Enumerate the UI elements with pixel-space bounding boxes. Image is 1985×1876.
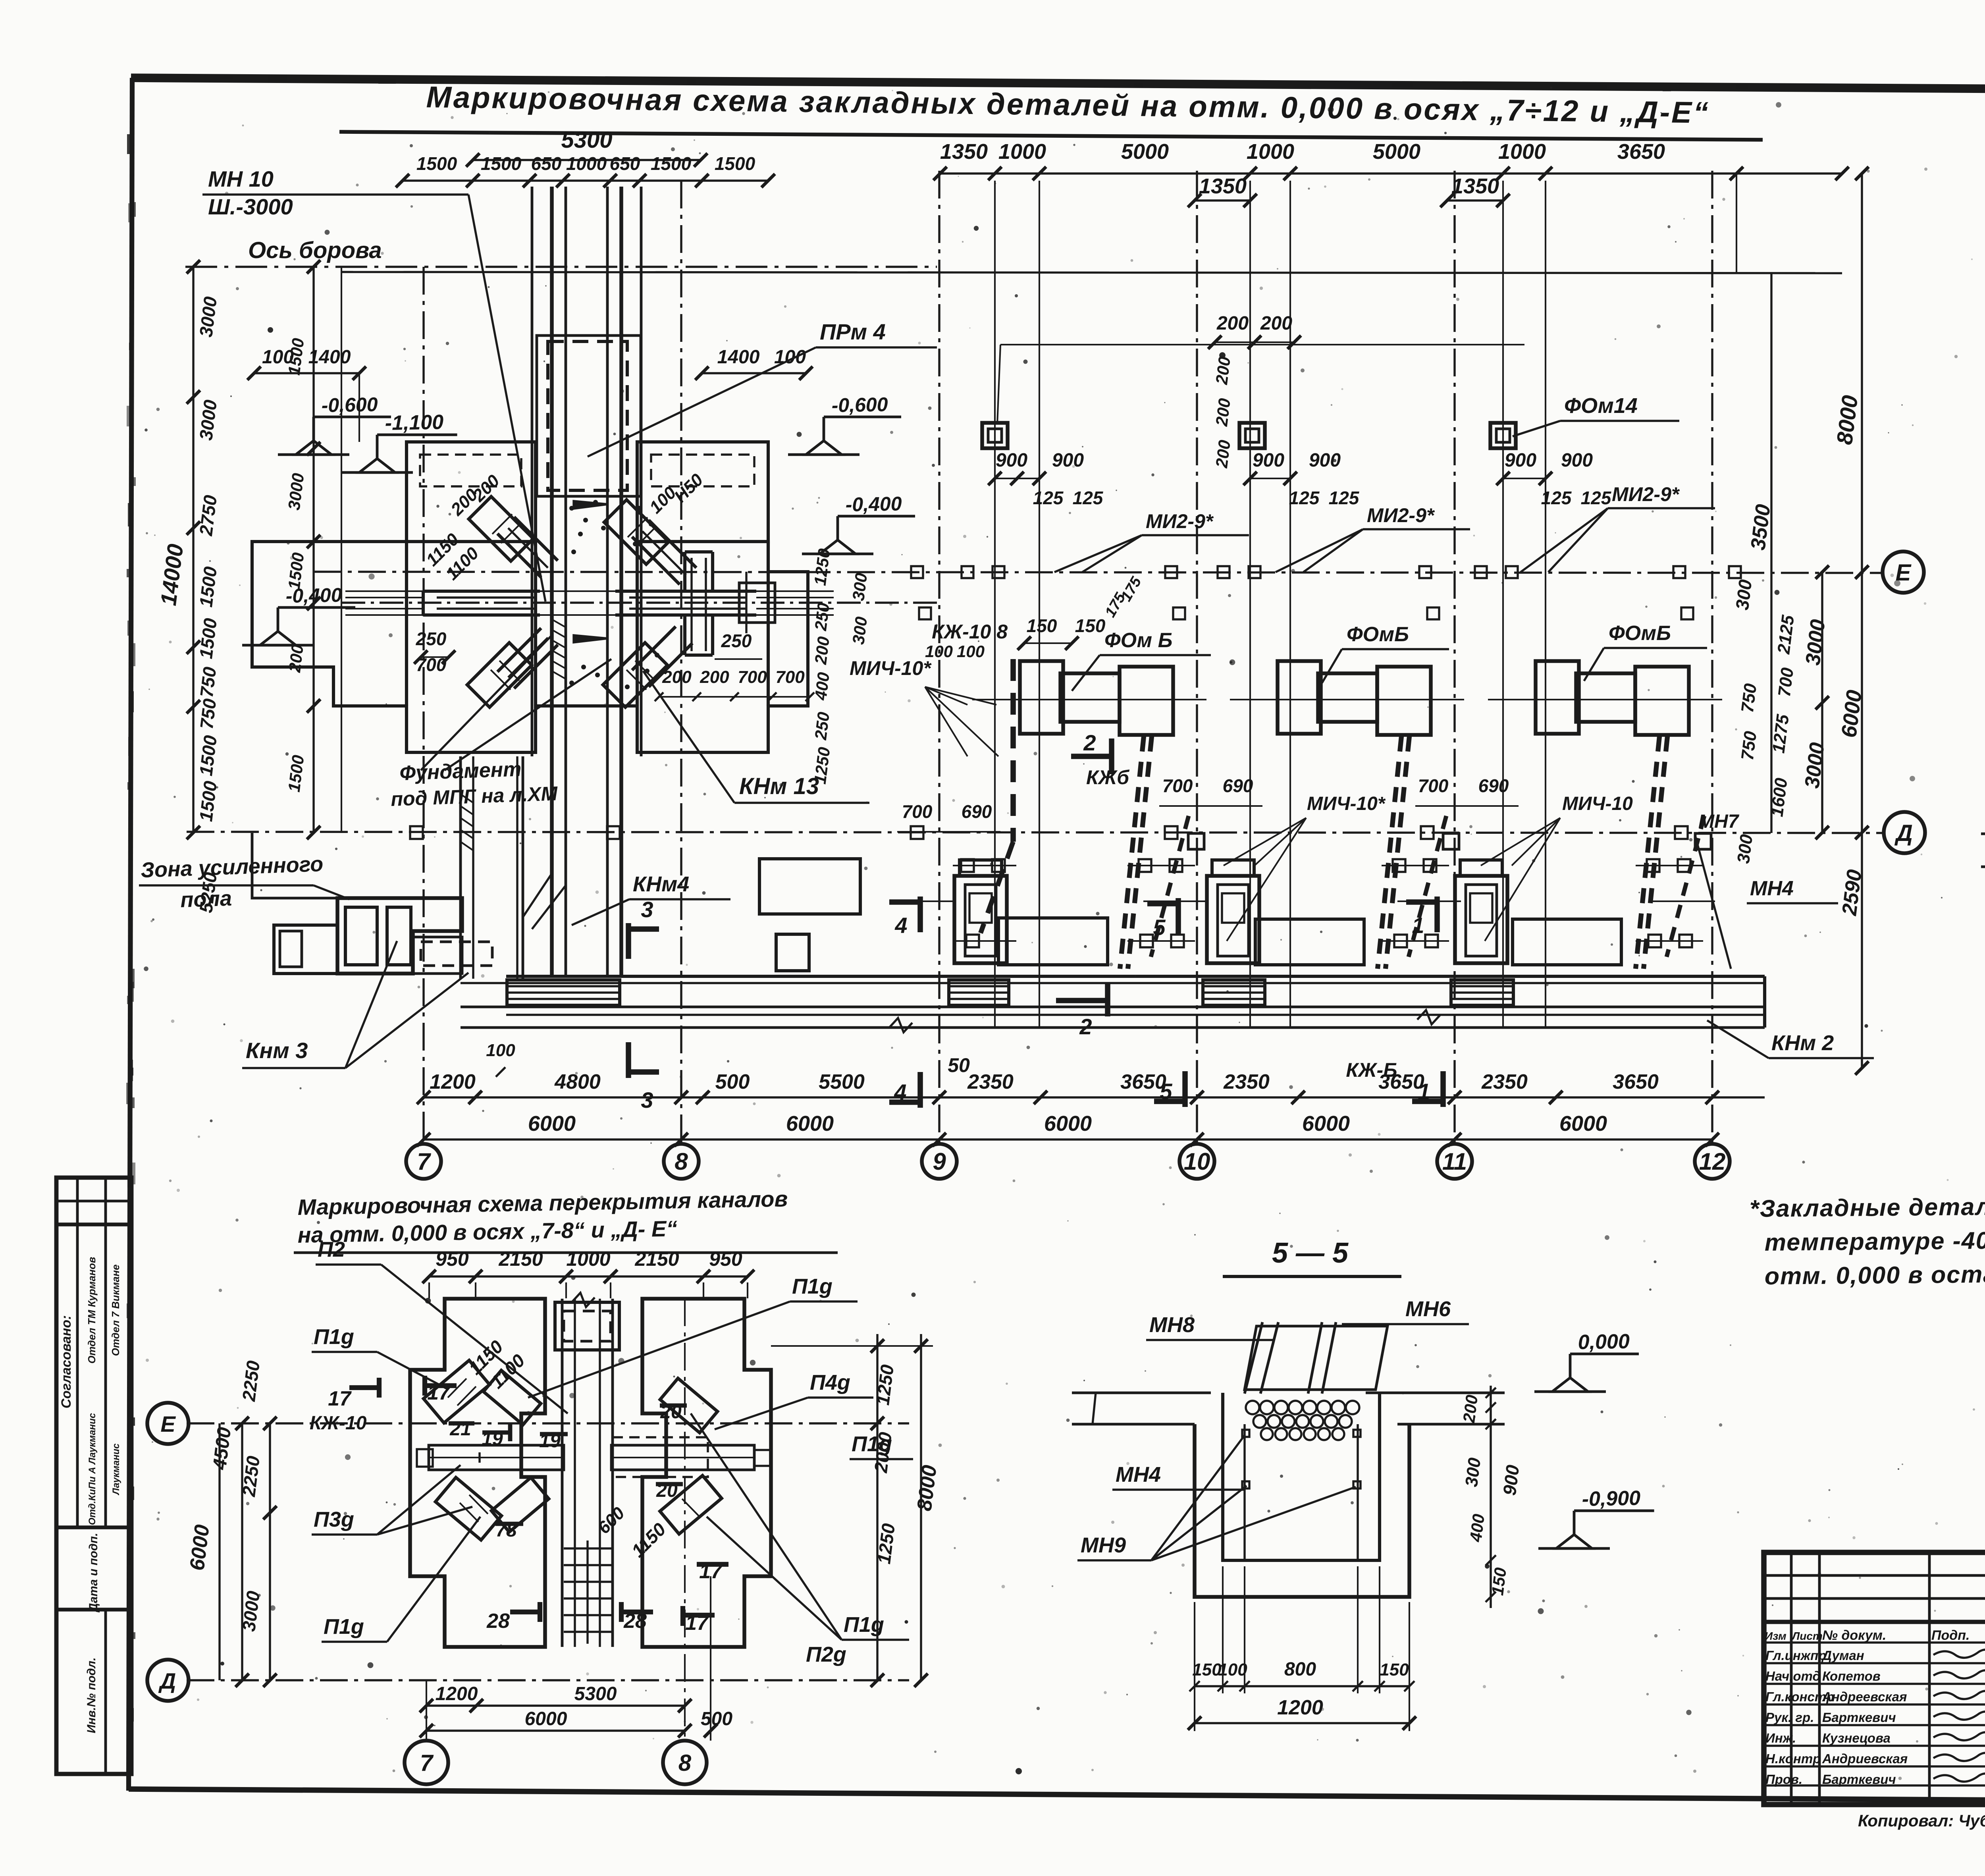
- svg-text:Дата и подп.: Дата и подп.: [87, 1533, 100, 1613]
- embedded plate pairs y2370: [966, 935, 979, 947]
- svg-text:150: 150: [1075, 615, 1106, 636]
- svg-text:300: 300: [849, 616, 871, 646]
- 5-5 channel inner: [1223, 1393, 1380, 1560]
- PRm4 dashed duct rectangle: [548, 341, 627, 490]
- svg-text:150: 150: [1027, 615, 1057, 636]
- svg-text:КЖб: КЖб: [1086, 766, 1130, 789]
- right vertical dim chain 2: [1770, 274, 1772, 833]
- equipment small box: [776, 934, 809, 971]
- svg-text:8: 8: [675, 1148, 688, 1175]
- left border roughness patches: [130, 202, 136, 217]
- svg-text:700: 700: [1162, 775, 1193, 796]
- svg-text:200: 200: [662, 667, 692, 687]
- svg-text:Согласовано:: Согласовано:: [59, 1315, 74, 1409]
- svg-text:200: 200: [1212, 397, 1234, 428]
- svg-text:12: 12: [1699, 1148, 1726, 1175]
- right cross east T insert: [739, 583, 775, 623]
- svg-text:750: 750: [196, 665, 220, 698]
- sub dim 1350 left: [1195, 199, 1250, 201]
- construction vertical line: [1039, 181, 1040, 1028]
- fundament leader lines: [421, 635, 552, 770]
- svg-text:125: 125: [1541, 488, 1572, 508]
- svg-text:МН 10: МН 10: [208, 166, 274, 191]
- 5-5 floor slab: [1072, 1392, 1211, 1394]
- svg-text:Гл.инжпр: Гл.инжпр: [1765, 1648, 1826, 1663]
- svg-text:150: 150: [1380, 1660, 1409, 1679]
- svg-text:900: 900: [1052, 450, 1084, 471]
- svg-text:125: 125: [1581, 488, 1612, 508]
- section mark 2 bottom: [1056, 998, 1108, 1003]
- svg-text:-0,600: -0,600: [831, 393, 888, 416]
- embedded plates on D axis: [410, 826, 423, 839]
- svg-text:Подп.: Подп.: [1931, 1628, 1970, 1643]
- svg-text:690: 690: [1478, 775, 1509, 796]
- svg-text:МН7: МН7: [1698, 811, 1740, 832]
- svg-text:П4g: П4g: [810, 1371, 850, 1394]
- KNm4 leader: [572, 899, 629, 925]
- svg-text:125: 125: [1289, 488, 1320, 508]
- svg-text:900: 900: [1253, 450, 1284, 471]
- svg-text:ПРм 4: ПРм 4: [820, 319, 886, 344]
- page border frame bottom: [129, 1789, 1985, 1803]
- svg-text:температуре -40° закладывать: температуре -40° закладывать в полу на: [1765, 1224, 1985, 1256]
- svg-text:950: 950: [709, 1248, 742, 1270]
- construction vertical line: [994, 181, 996, 1028]
- svg-text:Барткевич: Барткевич: [1822, 1710, 1896, 1725]
- bottom axis 8 circle: [663, 1741, 707, 1784]
- svg-text:200: 200: [1212, 356, 1234, 386]
- svg-text:200: 200: [1216, 313, 1249, 334]
- bottom axis 7 circle: [405, 1741, 448, 1784]
- title block signature rows: [1764, 1641, 1985, 1643]
- svg-text:-0,400: -0,400: [845, 493, 902, 516]
- svg-text:Отдел ТМ Курманов: Отдел ТМ Курманов: [86, 1257, 98, 1363]
- boiler pedestal caps and bodies: [960, 860, 1002, 876]
- svg-text:300: 300: [1734, 833, 1757, 864]
- axis 9 circle: [922, 1144, 957, 1179]
- svg-text:125: 125: [1033, 488, 1064, 508]
- embedded plates on E axis: [911, 566, 923, 578]
- borov channel wall left outer: [531, 187, 534, 756]
- svg-text:900: 900: [996, 450, 1027, 471]
- construction vertical line: [1289, 181, 1291, 1028]
- svg-text:1350: 1350: [1451, 174, 1499, 198]
- svg-text:125: 125: [1329, 488, 1360, 508]
- svg-text:4: 4: [894, 1080, 906, 1105]
- borov channel wall left pair: [550, 187, 554, 977]
- dim 5300 line: [473, 159, 701, 161]
- bottom plan upper right ext: [771, 1345, 933, 1347]
- svg-text:2350: 2350: [967, 1070, 1014, 1093]
- section mark 3 lower: [626, 1042, 631, 1078]
- svg-text:0,000: 0,000: [1578, 1330, 1630, 1354]
- cross axis line: [341, 602, 937, 603]
- svg-text:МИЧ-10*: МИЧ-10*: [850, 657, 932, 679]
- dim 1400 100 right: [702, 372, 806, 374]
- svg-text:1500: 1500: [715, 153, 755, 174]
- svg-text:10: 10: [1184, 1148, 1210, 1175]
- 5-5 anchor bolts: [1242, 1430, 1249, 1437]
- 5-5 right dim chain: [1490, 1386, 1492, 1608]
- bottom plan bottom dims: [426, 1704, 685, 1706]
- svg-text:1350: 1350: [1199, 174, 1247, 198]
- section mark 3 upper: [626, 923, 631, 959]
- axis 11 vertical line: [1453, 171, 1455, 1145]
- bottom plan right dim chain: [876, 1334, 878, 1680]
- svg-text:Андриевская: Андриевская: [1822, 1751, 1908, 1766]
- svg-text:-0,600: -0,600: [321, 393, 378, 416]
- left vertical dim line 14000: [192, 267, 194, 833]
- svg-text:650: 650: [531, 153, 562, 174]
- svg-text:1400: 1400: [717, 347, 760, 368]
- machine group 3 dashed cable A: [1636, 737, 1659, 969]
- svg-text:6000: 6000: [525, 1708, 567, 1729]
- svg-text:Лист: Лист: [1791, 1630, 1823, 1642]
- axis 6000 dim line: [424, 1138, 1712, 1140]
- construction vertical line right: [1736, 174, 1737, 274]
- plate connection lines y2370: [953, 940, 1016, 942]
- svg-text:125: 125: [1073, 488, 1104, 508]
- bottom plan channel top box: [555, 1302, 619, 1350]
- axis E line: [314, 572, 1883, 573]
- section mark 5 lower: [1182, 1071, 1188, 1107]
- left margin signature table: [76, 1224, 79, 1527]
- svg-text:250: 250: [416, 629, 447, 649]
- cross arm extension lines across plan: [345, 590, 834, 592]
- channel flow arrow lower: [574, 635, 608, 642]
- equipment boxes on strip between boilers: [998, 918, 1108, 965]
- svg-text:пола: пола: [180, 887, 232, 912]
- big FOm14 squares: [982, 423, 1008, 448]
- svg-text:700: 700: [775, 667, 805, 687]
- equipment box left of axis9: [759, 859, 860, 914]
- 5-5 inner wall lines: [1243, 1424, 1245, 1560]
- right cross SW diagonal arm: [632, 627, 692, 687]
- svg-text:Инж.: Инж.: [1765, 1731, 1796, 1745]
- svg-text:Изм: Изм: [1765, 1630, 1786, 1642]
- machine FOmB group 3 right block: [1635, 667, 1689, 735]
- page border frame top: [131, 78, 1985, 92]
- main strip bottom lines: [461, 1006, 1765, 1008]
- 5-5 cover plate: [1245, 1326, 1388, 1390]
- svg-text:5000: 5000: [1373, 140, 1420, 164]
- svg-text:300: 300: [1732, 578, 1756, 611]
- svg-text:2: 2: [1083, 730, 1096, 755]
- section mark 2 top: [1071, 754, 1112, 759]
- axis 7 circle: [406, 1144, 441, 1179]
- bottom axis E circle: [147, 1403, 189, 1444]
- bottom plan right block: [642, 1299, 771, 1647]
- machine group 3 dashed cable B: [1667, 816, 1704, 957]
- svg-text:Думан: Думан: [1821, 1648, 1864, 1663]
- svg-text:1350: 1350: [940, 140, 988, 164]
- bottom plan left dim chain: [269, 1423, 271, 1680]
- svg-text:5 — 5: 5 — 5: [1272, 1237, 1349, 1269]
- svg-text:200: 200: [285, 644, 307, 674]
- title block left grid columns: [1790, 1552, 1793, 1805]
- svg-text:9: 9: [933, 1148, 946, 1175]
- bottom plan channel walls: [561, 1299, 564, 1647]
- svg-text:700: 700: [1418, 775, 1449, 796]
- axis 8 vertical line: [680, 181, 682, 1145]
- left dim line 2: [312, 267, 314, 833]
- construction vertical line: [1249, 181, 1251, 1028]
- bottom plan channel hatch ladder: [564, 1547, 611, 1549]
- svg-text:200: 200: [1260, 313, 1292, 334]
- channel hatch strip: [552, 619, 566, 627]
- misc short horizontal segments between plates: [889, 900, 953, 902]
- section mark 1 upper: [1434, 897, 1440, 932]
- machine group 2 dashed cable A: [1378, 737, 1401, 969]
- 5-5 MN9 leaders: [1151, 1435, 1245, 1560]
- svg-text:900: 900: [1499, 1463, 1523, 1496]
- svg-text:200: 200: [700, 667, 729, 687]
- svg-text:100: 100: [957, 642, 985, 661]
- machine FOmB group 2 right block: [1377, 667, 1431, 735]
- svg-text:1400: 1400: [308, 347, 351, 368]
- top dim line right: [940, 172, 1842, 174]
- svg-text:500: 500: [701, 1708, 732, 1729]
- foundation main slab outline: [252, 542, 808, 752]
- svg-text:5: 5: [1153, 915, 1166, 940]
- axis 11 circle: [1437, 1144, 1472, 1179]
- right cross NW diagonal arm: [632, 520, 696, 584]
- plate connection lines y2180: [953, 865, 1016, 866]
- machine FOmB group 3 middle block: [1576, 673, 1635, 722]
- svg-text:750: 750: [1738, 682, 1761, 713]
- svg-text:400: 400: [1466, 1513, 1488, 1543]
- svg-text:800: 800: [1284, 1659, 1316, 1680]
- knm2 leader: [1707, 1020, 1769, 1058]
- svg-text:300: 300: [1462, 1456, 1485, 1488]
- svg-text:5: 5: [1160, 1079, 1172, 1104]
- left cross pad NE: [469, 497, 534, 561]
- grate blocks under pedestals: [507, 980, 620, 1005]
- svg-text:6000: 6000: [1559, 1112, 1607, 1136]
- svg-text:П1g: П1g: [324, 1615, 364, 1639]
- svg-text:-0,900: -0,900: [1582, 1487, 1641, 1511]
- svg-text:900: 900: [1505, 450, 1536, 471]
- svg-text:1500: 1500: [481, 153, 522, 174]
- MICh-10 leader fan left: [925, 687, 967, 705]
- section mark 4 upper: [917, 897, 923, 932]
- machine group 1 dashed cable B: [1151, 816, 1189, 957]
- svg-text:400: 400: [811, 671, 833, 702]
- svg-text:Отд.КиПи А Лаукманис: Отд.КиПи А Лаукманис: [87, 1413, 98, 1525]
- top border roughness patches: [1171, 80, 1178, 83]
- borov channel wall right outer: [640, 187, 643, 756]
- svg-text:МИЧ-10: МИЧ-10: [1562, 793, 1633, 814]
- svg-text:КЖ-10 8: КЖ-10 8: [932, 621, 1008, 643]
- axis E circle: [1883, 551, 1924, 593]
- svg-text:Кузнецова: Кузнецова: [1822, 1731, 1891, 1745]
- svg-text:5500: 5500: [819, 1070, 865, 1093]
- bottom plan top dims: [429, 1275, 748, 1277]
- svg-text:Фундамент: Фундамент: [399, 758, 522, 785]
- borov channel wall right pair: [606, 187, 609, 977]
- svg-text:КЖ-Б: КЖ-Б: [1346, 1059, 1397, 1081]
- svg-text:100: 100: [262, 347, 294, 368]
- svg-text:Н.контр: Н.контр: [1765, 1751, 1821, 1766]
- 5-5 extension lines: [1194, 1602, 1195, 1731]
- svg-text:150: 150: [1192, 1660, 1222, 1679]
- machine group 1 dashed cable A: [1120, 737, 1144, 969]
- channel flow arrow upper: [574, 501, 608, 509]
- svg-text:3650: 3650: [1613, 1070, 1659, 1093]
- svg-text:Барткевич: Барткевич: [1822, 1772, 1896, 1787]
- svg-text:МН4: МН4: [1750, 877, 1794, 900]
- upper horizontal construction line: [341, 272, 1842, 273]
- svg-text:4: 4: [894, 913, 907, 938]
- svg-text:Д: Д: [158, 1668, 176, 1693]
- svg-text:7: 7: [417, 1148, 431, 1175]
- tank structure Knm3 outlines: [337, 898, 462, 974]
- axis 9 vertical line: [938, 171, 940, 1145]
- construction vertical line: [1502, 181, 1504, 1028]
- zona leader: [314, 885, 349, 899]
- foundation slab left tab: [407, 442, 536, 542]
- svg-text:17: 17: [328, 1387, 352, 1410]
- main plan sub dim line: [424, 1096, 1765, 1098]
- FOm14 leader: [1513, 421, 1560, 436]
- svg-text:200: 200: [1459, 1394, 1481, 1424]
- svg-text:690: 690: [962, 801, 992, 822]
- svg-text:1200: 1200: [436, 1683, 478, 1704]
- svg-text:300: 300: [849, 572, 871, 602]
- svg-text:100: 100: [925, 642, 953, 661]
- svg-text:3650: 3650: [1617, 140, 1665, 164]
- heavy dashed boundary KZh-10: [1010, 659, 1016, 842]
- foundation slab right tab: [637, 442, 768, 542]
- svg-text:100: 100: [486, 1041, 515, 1060]
- machine FOmB group 1 middle block: [1060, 673, 1120, 722]
- PRm4 leader: [588, 347, 816, 457]
- svg-text:МН4: МН4: [1116, 1463, 1161, 1487]
- 5-5 round bars: [1246, 1401, 1259, 1414]
- section mark 5 upper: [1176, 898, 1181, 934]
- svg-text:6000: 6000: [1044, 1112, 1092, 1136]
- left margin inv box: [104, 1610, 107, 1774]
- svg-text:5300: 5300: [561, 127, 612, 153]
- svg-text:Пров.: Пров.: [1765, 1772, 1802, 1787]
- left cross NE diagonal arm: [497, 517, 558, 577]
- horizontal leader line to FOm14 squares: [1000, 344, 1524, 345]
- svg-text:ФОмБ: ФОмБ: [1609, 622, 1671, 645]
- svg-text:КНм 2: КНм 2: [1771, 1031, 1834, 1055]
- svg-text:1000: 1000: [1498, 140, 1546, 164]
- svg-text:1: 1: [1412, 913, 1424, 938]
- axis D circle: [1884, 812, 1925, 853]
- bottom plan center bars right: [611, 1445, 754, 1470]
- svg-text:Ось борова: Ось борова: [248, 237, 382, 263]
- machine FOmB group 3 left block: [1536, 661, 1579, 734]
- svg-text:П2: П2: [318, 1238, 345, 1261]
- svg-text:650: 650: [610, 153, 640, 174]
- P1g right bottom leaders: [707, 1517, 842, 1640]
- svg-text:700: 700: [1775, 666, 1798, 698]
- bottom axis E line: [187, 1422, 909, 1424]
- MN10 leader diagonal: [468, 195, 545, 602]
- right vertical dim line 8000 chain: [1861, 174, 1863, 1068]
- machine FOmB group 1 right block: [1120, 667, 1173, 735]
- svg-text:Копетов: Копетов: [1822, 1669, 1881, 1683]
- machine group 2 dashed cable B: [1409, 816, 1446, 957]
- svg-text:Кнм 3: Кнм 3: [246, 1038, 308, 1063]
- svg-text:КНм4: КНм4: [633, 872, 689, 896]
- scan noise speckles: [918, 342, 921, 345]
- svg-text:3: 3: [641, 897, 653, 922]
- svg-text:МИ2-9*: МИ2-9*: [1367, 504, 1435, 526]
- svg-text:6000: 6000: [786, 1112, 834, 1136]
- axis 8 circle: [664, 1144, 699, 1179]
- title block signatures squiggles: [1933, 1650, 1985, 1658]
- 4-4 floor slab left: [1981, 833, 1985, 835]
- embedded plates row below E: [919, 607, 931, 619]
- svg-text:П1g: П1g: [314, 1325, 354, 1349]
- svg-text:Нач.отд: Нач.отд: [1765, 1669, 1821, 1683]
- svg-text:1500: 1500: [651, 153, 692, 174]
- svg-text:1000: 1000: [998, 140, 1046, 164]
- svg-text:1200: 1200: [1277, 1696, 1323, 1719]
- svg-text:ФОм Б: ФОм Б: [1104, 629, 1172, 652]
- svg-text:2150: 2150: [634, 1248, 679, 1270]
- bottom plan center bars left: [429, 1445, 564, 1470]
- svg-text:690: 690: [1223, 775, 1253, 796]
- section mark 4 lower: [917, 1072, 923, 1108]
- svg-text:МИ2-9*: МИ2-9*: [1146, 510, 1214, 532]
- svg-text:П3g: П3g: [314, 1508, 354, 1531]
- svg-text:8: 8: [678, 1750, 692, 1776]
- svg-text:200: 200: [1212, 439, 1234, 469]
- svg-text:Рук. гр.: Рук. гр.: [1765, 1710, 1814, 1725]
- bottom axis D line: [187, 1679, 909, 1681]
- svg-text:Лаукманис: Лаукманис: [111, 1444, 121, 1496]
- svg-text:1: 1: [1418, 1079, 1430, 1104]
- svg-text:950: 950: [436, 1248, 469, 1270]
- bottom plan left block: [410, 1299, 545, 1647]
- svg-text:№ докум.: № докум.: [1822, 1628, 1886, 1643]
- svg-text:1000: 1000: [566, 1248, 610, 1270]
- axis 10 vertical line: [1196, 171, 1198, 1145]
- svg-text:Ш.-3000: Ш.-3000: [208, 194, 293, 219]
- bottom plan subtitle underline: [294, 1251, 838, 1254]
- main strip second line: [461, 982, 1765, 984]
- svg-text:1200: 1200: [430, 1070, 476, 1093]
- svg-text:Андреевская: Андреевская: [1822, 1689, 1907, 1704]
- svg-text:П2g: П2g: [806, 1643, 846, 1666]
- svg-text:700: 700: [902, 801, 933, 822]
- svg-text:750: 750: [1738, 730, 1761, 761]
- svg-text:-0,400: -0,400: [285, 584, 342, 607]
- svg-text:5300: 5300: [574, 1683, 617, 1704]
- svg-text:28: 28: [486, 1610, 510, 1633]
- title block top grid rows: [1764, 1574, 1985, 1577]
- left margin outer box: [56, 1178, 131, 1774]
- svg-text:7: 7: [420, 1750, 434, 1776]
- axis 10 circle: [1179, 1144, 1214, 1179]
- axis 12 vertical line: [1711, 171, 1713, 1145]
- zone boundary left step polyline: [252, 833, 337, 898]
- title block outer rect: [1764, 1552, 1985, 1805]
- construction vertical line: [1545, 181, 1546, 1028]
- machine group 2 centerline: [1230, 699, 1464, 700]
- bottom plan channel break mark top: [572, 1293, 595, 1307]
- svg-text:700: 700: [738, 667, 767, 687]
- machine group 3 centerline: [1488, 699, 1722, 700]
- left margin top grid: [56, 1200, 131, 1203]
- svg-text:Инв.№ подл.: Инв.№ подл.: [85, 1657, 98, 1733]
- left cross pad SW: [467, 643, 532, 708]
